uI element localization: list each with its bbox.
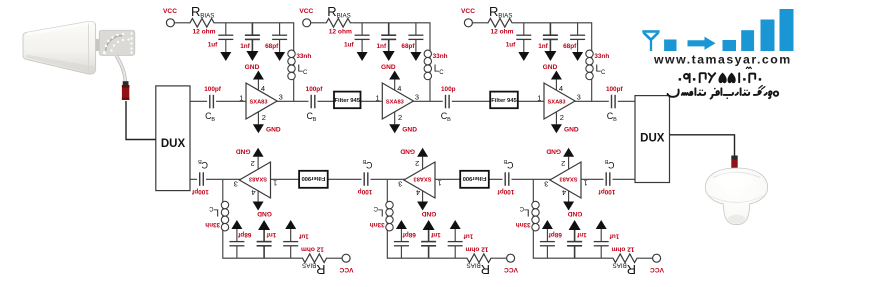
- ground symbol pin 2 stage T1: [253, 112, 281, 134]
- svg-text:SXA83: SXA83: [413, 176, 431, 182]
- ground of 1nf cap stage T1: [246, 51, 258, 61]
- outdoor antenna connector: [122, 81, 129, 100]
- svg-text:100p: 100p: [358, 188, 373, 195]
- filter Filter 945 top 2: [490, 92, 518, 109]
- svg-text:3: 3: [415, 93, 419, 102]
- svg-text:100pf: 100pf: [306, 86, 324, 93]
- svg-text:R: R: [316, 262, 325, 277]
- resistor R_BIAS 12 ohm stage T3: [486, 4, 514, 36]
- bias rail wire stage T3: [514, 23, 592, 50]
- svg-text:R: R: [327, 4, 336, 19]
- svg-text:R: R: [191, 4, 200, 19]
- ground of 1uf cap stage T3: [518, 52, 529, 61]
- svg-text:VCC: VCC: [650, 266, 664, 273]
- svg-text:1uf: 1uf: [208, 42, 218, 49]
- svg-text:GND: GND: [245, 64, 260, 71]
- svg-text:GND: GND: [421, 210, 436, 217]
- svg-text:1uf: 1uf: [298, 233, 308, 240]
- svg-text:Filter 945: Filter 945: [491, 98, 517, 104]
- svg-text:C: C: [303, 70, 308, 76]
- filter Filter 945 top 1: [334, 92, 361, 109]
- capacitor 68pf stage B3 (rotated): [540, 229, 562, 258]
- wire DUX to indoor antenna: [670, 135, 735, 158]
- svg-text:68pf: 68pf: [402, 231, 416, 238]
- phone number Persian digits: [679, 67, 762, 83]
- svg-text:1: 1: [537, 93, 541, 102]
- amplifier stage group: stage T2: [299, 4, 447, 134]
- svg-text:1uf: 1uf: [344, 42, 354, 49]
- resistor R_BIAS 12 ohm stage B1 (rotated): [301, 246, 329, 278]
- svg-text:12 ohm: 12 ohm: [465, 246, 488, 253]
- svg-text:GND: GND: [546, 148, 561, 155]
- svg-text:12 ohm: 12 ohm: [301, 246, 324, 253]
- svg-text:100pf: 100pf: [191, 188, 209, 195]
- ground of 1nf cap stage T2: [383, 51, 395, 61]
- svg-text:33nh: 33nh: [516, 221, 531, 228]
- VCC terminal stage T1: [163, 8, 177, 27]
- ground of 68pf cap stage B2 (rotated): [396, 220, 407, 229]
- amplifier stage group: stage B1 (rotated): [205, 148, 353, 278]
- svg-text:3: 3: [234, 179, 238, 188]
- svg-text:12 ohm: 12 ohm: [192, 29, 215, 36]
- svg-text:4: 4: [416, 188, 420, 197]
- svg-text:R: R: [489, 4, 498, 19]
- bias rail wire stage B3 (rotated): [533, 231, 611, 258]
- wire VCC to R_BIAS stage B3 (rotated): [639, 257, 653, 259]
- svg-text:1: 1: [273, 179, 277, 188]
- capacitor 1uf stage T1: [208, 23, 234, 52]
- svg-text:R: R: [627, 262, 636, 277]
- svg-text:GND: GND: [381, 64, 396, 71]
- resistor R_BIAS 12 ohm stage T2: [324, 4, 352, 36]
- svg-text:1uf: 1uf: [463, 233, 473, 240]
- ground symbol pin 4 stage B3 (rotated): [563, 191, 582, 218]
- filter Filter900 bottom 2: [299, 171, 328, 188]
- svg-text:1: 1: [584, 179, 588, 188]
- svg-text:VCC: VCC: [299, 8, 313, 15]
- svg-text:VCC: VCC: [504, 266, 518, 273]
- svg-text:BIAS: BIAS: [613, 261, 627, 268]
- svg-text:Filter900: Filter900: [463, 175, 487, 181]
- ground symbol pin 2 stage B2 (rotated): [400, 148, 428, 170]
- resistor R_BIAS 12 ohm stage B2 (rotated): [465, 246, 493, 278]
- capacitor 1nf stage T2: [377, 23, 397, 51]
- svg-text:Filter 945: Filter 945: [335, 98, 361, 104]
- ground symbol pin 2 stage B3 (rotated): [546, 148, 574, 170]
- capacitor 68pf stage T3: [563, 23, 585, 52]
- ground symbol pin 2 stage B1 (rotated): [236, 148, 264, 170]
- svg-text:GND: GND: [257, 210, 272, 217]
- coupling capacitor C_B 100pf bottom 4: [191, 158, 209, 195]
- ground symbol pin 4 stage T1: [245, 64, 264, 91]
- bias rail wire stage B1 (rotated): [223, 231, 301, 258]
- svg-text:1nf: 1nf: [430, 231, 440, 238]
- svg-text:68pf: 68pf: [265, 43, 279, 50]
- VCC terminal stage B2 (rotated): [504, 254, 518, 273]
- svg-text:B: B: [604, 158, 608, 164]
- svg-text:1nf: 1nf: [377, 43, 387, 50]
- svg-text:2: 2: [415, 159, 419, 168]
- svg-text:2: 2: [251, 159, 255, 168]
- capacitor 1nf stage T3: [538, 23, 558, 51]
- svg-text:100pf: 100pf: [598, 188, 616, 195]
- svg-text:C: C: [209, 205, 214, 211]
- svg-text:GND: GND: [236, 148, 251, 155]
- svg-text:1nf: 1nf: [240, 43, 250, 50]
- svg-text:GND: GND: [402, 127, 417, 134]
- logo arrow: [688, 37, 716, 50]
- svg-text:R: R: [481, 262, 490, 277]
- svg-text:B: B: [362, 158, 366, 164]
- ground of 1nf cap stage T3: [544, 51, 556, 61]
- svg-text:B: B: [447, 117, 451, 123]
- svg-text:4: 4: [261, 84, 265, 93]
- capacitor 68pf stage B2 (rotated): [394, 229, 416, 258]
- capacitor 1uf stage T3: [506, 23, 532, 52]
- svg-text:VCC: VCC: [461, 8, 475, 15]
- logo signal bar 3: [761, 20, 775, 52]
- svg-text:1: 1: [438, 179, 442, 188]
- capacitor 68pf stage T1: [265, 23, 287, 52]
- ground of 1uf cap stage B3 (rotated): [596, 220, 607, 229]
- coupling capacitor C_B 100pf bottom 2: [497, 158, 515, 195]
- svg-text:12 ohm: 12 ohm: [490, 29, 513, 36]
- ground of 68pf cap stage T1: [274, 52, 285, 61]
- capacitor 1nf stage B2 (rotated): [421, 230, 441, 258]
- svg-text:3: 3: [398, 179, 402, 188]
- wire VCC to R_BIAS stage B2 (rotated): [493, 257, 507, 259]
- svg-text:1nf: 1nf: [266, 231, 276, 238]
- ground of 1uf cap stage T2: [357, 52, 368, 61]
- amplifier SXA83 stage B2 (rotated): [404, 162, 435, 198]
- svg-text:BIAS: BIAS: [200, 13, 214, 20]
- amplifier SXA83 stage T1: [246, 83, 277, 119]
- svg-text:BIAS: BIAS: [498, 13, 512, 20]
- wire top signal path: [190, 100, 636, 102]
- svg-text:DUX: DUX: [161, 138, 186, 150]
- wire outdoor antenna to DUX: [126, 101, 156, 140]
- svg-text:C: C: [439, 70, 444, 76]
- svg-text:33nh: 33nh: [594, 53, 609, 60]
- inductor L_C 33nh stage B2 (rotated): [370, 180, 394, 231]
- svg-text:BIAS: BIAS: [337, 13, 351, 20]
- amplifier stage group: stage T3: [461, 4, 609, 134]
- inductor L_C 33nh stage T2: [424, 50, 448, 101]
- inductor L_C 33nh stage T3: [586, 50, 610, 101]
- svg-text:C: C: [601, 70, 606, 76]
- svg-text:GND: GND: [543, 64, 558, 71]
- svg-text:4: 4: [562, 188, 566, 197]
- DUX duplexer right: [635, 96, 670, 183]
- capacitor 1nf stage B3 (rotated): [567, 230, 587, 258]
- coupling capacitor C_B 100p bottom 3: [358, 158, 373, 195]
- svg-text:4: 4: [251, 188, 255, 197]
- amplifier SXA83 stage T2: [382, 83, 413, 119]
- svg-text:SXA83: SXA83: [547, 99, 565, 105]
- ground symbol pin 4 stage B1 (rotated): [253, 191, 272, 218]
- indoor antenna connector: [731, 156, 737, 170]
- VCC terminal stage T2: [299, 8, 313, 27]
- coupling capacitor C_B 100pf top 1: [204, 86, 222, 123]
- svg-text:BIAS: BIAS: [302, 261, 316, 268]
- inductor L_C 33nh stage T1: [288, 50, 312, 101]
- svg-text:68pf: 68pf: [563, 43, 577, 50]
- bias rail wire stage T1: [216, 23, 294, 50]
- svg-text:1nf: 1nf: [538, 43, 548, 50]
- svg-text:SXA83: SXA83: [249, 99, 267, 105]
- svg-text:VCC: VCC: [163, 8, 177, 15]
- wire VCC to R_BIAS stage T2: [311, 22, 325, 24]
- logo signal bar 0: [664, 40, 676, 52]
- amplifier stage group: stage B2 (rotated): [370, 148, 518, 278]
- ground symbol pin 4 stage T3: [543, 64, 562, 91]
- ground of 68pf cap stage B1 (rotated): [231, 220, 242, 229]
- amplifier SXA83 stage B3 (rotated): [550, 162, 581, 198]
- indoor ceiling dome antenna: [705, 168, 767, 225]
- svg-text:BIAS: BIAS: [467, 261, 481, 268]
- svg-text:B: B: [503, 158, 507, 164]
- ground symbol pin 4 stage B2 (rotated): [417, 191, 436, 218]
- ground of 1uf cap stage B2 (rotated): [450, 220, 461, 229]
- svg-text:B: B: [313, 117, 317, 123]
- svg-text:3: 3: [279, 93, 283, 102]
- svg-text:VCC: VCC: [339, 266, 353, 273]
- svg-text:GND: GND: [400, 148, 415, 155]
- svg-text:B: B: [613, 117, 617, 123]
- svg-text:100pf: 100pf: [606, 86, 624, 93]
- bias rail wire stage B2 (rotated): [387, 231, 465, 258]
- svg-text:33nh: 33nh: [433, 53, 448, 60]
- svg-text:SXA83: SXA83: [249, 176, 267, 182]
- Persian caption: گروه مخابراتی تماسیار: [668, 86, 779, 99]
- svg-text:33nh: 33nh: [205, 221, 220, 228]
- ground of 1nf cap stage B2 (rotated): [423, 220, 435, 230]
- svg-text:1uf: 1uf: [609, 233, 619, 240]
- ground of 68pf cap stage T2: [410, 52, 421, 61]
- svg-text:C: C: [519, 205, 524, 211]
- svg-text:4: 4: [397, 84, 401, 93]
- svg-text:2: 2: [262, 113, 266, 122]
- capacitor 68pf stage T2: [401, 23, 423, 52]
- capacitor 1uf stage B1 (rotated): [283, 229, 309, 258]
- svg-text:12 ohm: 12 ohm: [611, 246, 634, 253]
- svg-text:100pf: 100pf: [497, 188, 515, 195]
- svg-text:1: 1: [239, 93, 243, 102]
- svg-text:68pf: 68pf: [237, 231, 251, 238]
- logo signal bar 2: [741, 30, 754, 51]
- svg-text:33nh: 33nh: [296, 53, 311, 60]
- svg-text:2: 2: [561, 159, 565, 168]
- wire VCC to R_BIAS stage T3: [472, 22, 486, 24]
- capacitor 1uf stage T2: [344, 23, 370, 52]
- VCC terminal stage T3: [461, 8, 475, 27]
- resistor R_BIAS 12 ohm stage B3 (rotated): [611, 246, 639, 278]
- wire VCC to R_BIAS stage T1: [174, 22, 188, 24]
- svg-text:SXA83: SXA83: [386, 99, 404, 105]
- svg-text:4: 4: [559, 84, 563, 93]
- amplifier SXA83 stage B1 (rotated): [239, 162, 270, 198]
- svg-text:68pf: 68pf: [548, 231, 562, 238]
- amplifier stage group: stage B3 (rotated): [516, 148, 664, 278]
- svg-text:3: 3: [577, 93, 581, 102]
- svg-text:100p: 100p: [441, 86, 456, 93]
- svg-text:3: 3: [544, 179, 548, 188]
- svg-text:GND: GND: [266, 127, 281, 134]
- VCC terminal stage B1 (rotated): [339, 254, 353, 273]
- svg-text:68pf: 68pf: [401, 43, 415, 50]
- capacitor 1uf stage B3 (rotated): [594, 229, 620, 258]
- wire VCC to R_BIAS stage B1 (rotated): [329, 257, 343, 259]
- ground symbol pin 2 stage T2: [389, 112, 417, 134]
- coupling capacitor C_B 100p top 3: [441, 86, 456, 123]
- ground symbol pin 2 stage T3: [551, 112, 579, 134]
- filter Filter900 bottom 1: [460, 171, 489, 188]
- coupling capacitor C_B 100pf top 4: [606, 86, 624, 123]
- svg-text:1: 1: [376, 93, 380, 102]
- svg-text:GND: GND: [564, 127, 579, 134]
- logo antenna icon: [642, 30, 659, 51]
- svg-text:C: C: [373, 205, 378, 211]
- ground of 68pf cap stage B3 (rotated): [542, 220, 553, 229]
- logo signal bar 4: [780, 9, 794, 51]
- amplifier SXA83 stage T3: [544, 83, 575, 119]
- svg-text:B: B: [198, 158, 202, 164]
- coupling capacitor C_B 100pf bottom 1: [598, 158, 616, 195]
- coupling capacitor C_B 100pf top 2: [306, 86, 324, 123]
- wire bottom signal path: [190, 178, 636, 180]
- svg-text:DUX: DUX: [640, 133, 665, 145]
- inductor L_C 33nh stage B3 (rotated): [516, 180, 540, 231]
- svg-text:33nh: 33nh: [370, 221, 385, 228]
- ground of 1nf cap stage B1 (rotated): [258, 220, 270, 230]
- svg-text:1nf: 1nf: [576, 231, 586, 238]
- capacitor 68pf stage B1 (rotated): [229, 229, 251, 258]
- bias rail wire stage T2: [352, 23, 430, 50]
- ground symbol pin 4 stage T2: [381, 64, 400, 91]
- svg-text:SXA83: SXA83: [559, 176, 577, 182]
- svg-text:1uf: 1uf: [506, 42, 516, 49]
- ground of 1nf cap stage B3 (rotated): [569, 220, 581, 230]
- svg-text:www.tamasyar.com: www.tamasyar.com: [653, 52, 792, 66]
- capacitor 1uf stage B2 (rotated): [448, 229, 474, 258]
- capacitor 1nf stage B1 (rotated): [257, 230, 277, 258]
- capacitor 1nf stage T1: [240, 23, 260, 51]
- svg-text:12 ohm: 12 ohm: [329, 29, 352, 36]
- amplifier stage group: stage T1: [163, 4, 311, 134]
- svg-text:GND: GND: [567, 210, 582, 217]
- svg-text:100pf: 100pf: [204, 86, 222, 93]
- outdoor LPDA antenna: [23, 21, 135, 82]
- DUX duplexer left: [156, 86, 190, 191]
- svg-text:2: 2: [398, 113, 402, 122]
- svg-text:B: B: [211, 117, 215, 123]
- svg-text:2: 2: [560, 113, 564, 122]
- inductor L_C 33nh stage B1 (rotated): [205, 180, 229, 231]
- VCC terminal stage B3 (rotated): [650, 254, 664, 273]
- ground of 1uf cap stage T1: [220, 52, 231, 61]
- svg-text:Filter900: Filter900: [301, 175, 325, 181]
- ground of 1uf cap stage B1 (rotated): [285, 220, 296, 229]
- logo signal bar 1: [723, 40, 737, 51]
- ground of 68pf cap stage T3: [572, 52, 583, 61]
- resistor R_BIAS 12 ohm stage T1: [188, 4, 216, 36]
